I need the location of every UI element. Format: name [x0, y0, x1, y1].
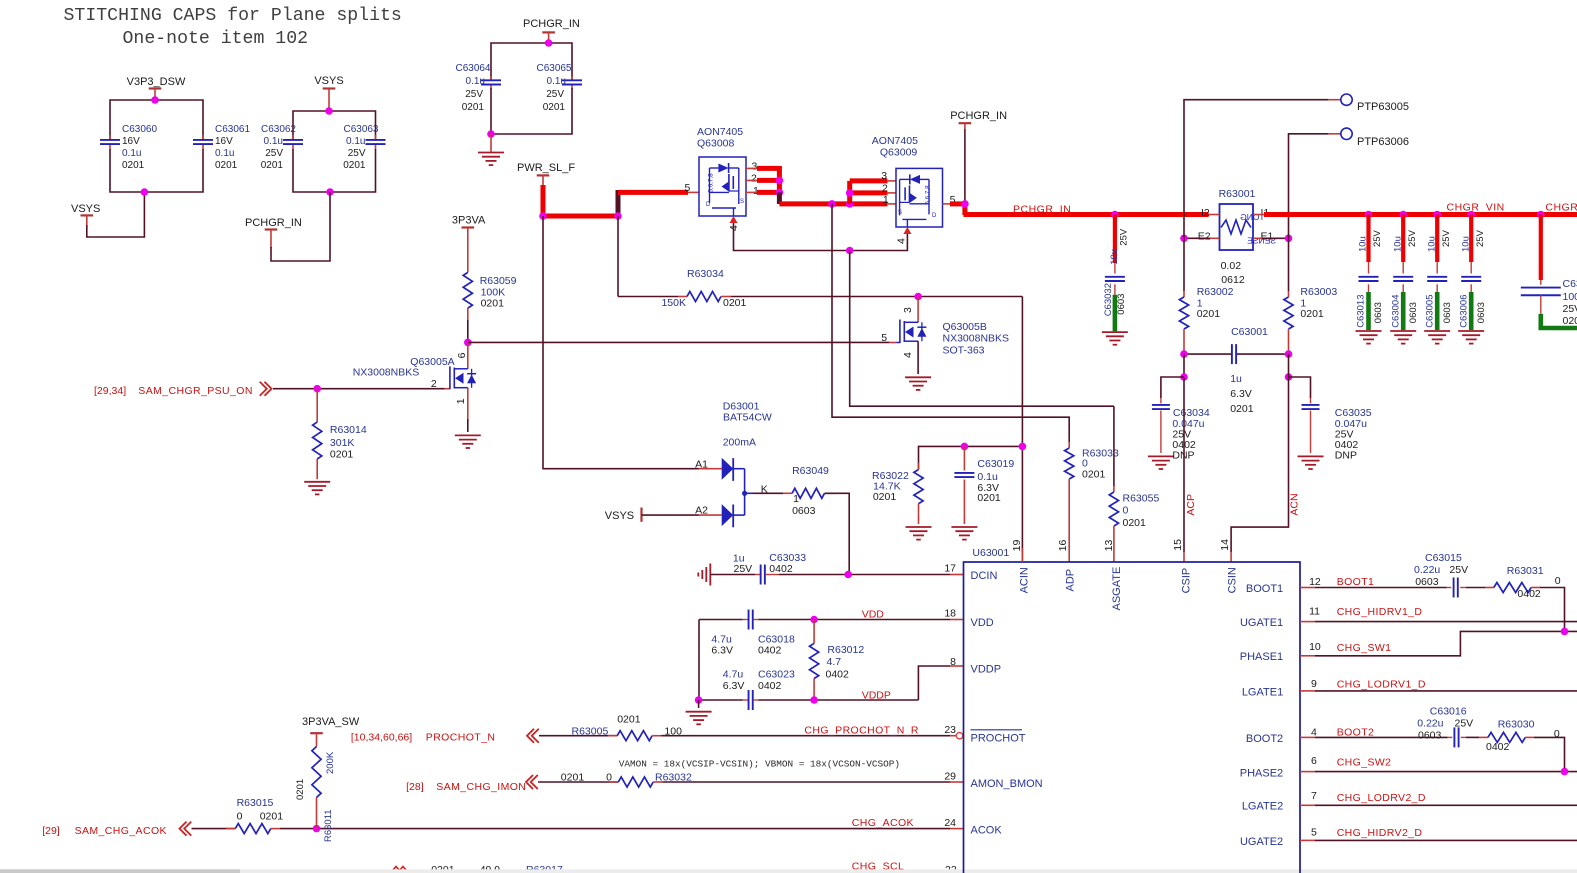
svg-text:R63005: R63005	[572, 726, 609, 738]
pin 22 SCL partial	[0, 0, 1, 1]
resistor R63055	[1109, 406, 1159, 562]
svg-text:C63060: C63060	[122, 124, 157, 135]
net SAM_CHG_IMON	[406, 775, 618, 793]
wire bus PCHGR_IN thick	[964, 204, 1209, 219]
svg-text:6.3V: 6.3V	[723, 680, 745, 692]
resistor R63059 100K	[463, 272, 516, 342]
wire PCHGR_IN cap box	[487, 39, 572, 138]
pin 9 LGATE1 net CHG_LODRV1_D	[1242, 678, 1577, 698]
svg-text:25V: 25V	[1563, 303, 1577, 315]
svg-text:18: 18	[944, 608, 956, 620]
svg-text:UGATE1: UGATE1	[1240, 617, 1283, 629]
capacitor C63004	[1390, 215, 1419, 344]
pin 18 VDD	[944, 608, 993, 629]
svg-text:SENSE: SENSE	[1247, 236, 1276, 246]
svg-text:0603: 0603	[1116, 294, 1127, 315]
wire gate loop to R63034 line	[850, 251, 1114, 407]
svg-text:R63059: R63059	[480, 275, 517, 287]
svg-text:R63001: R63001	[1219, 188, 1256, 200]
svg-text:13: 13	[1103, 540, 1115, 552]
svg-text:5: 5	[685, 182, 691, 194]
capacitor C63032	[1102, 215, 1130, 345]
ground below C63019	[951, 527, 977, 540]
svg-text:0: 0	[1123, 505, 1129, 517]
svg-text:7: 7	[1311, 790, 1317, 802]
pin 19 ACIN	[1011, 540, 1031, 594]
power net VSYS top	[314, 75, 343, 111]
svg-text:25V: 25V	[1475, 229, 1486, 247]
svg-text:C63061: C63061	[215, 124, 250, 135]
svg-text:0201: 0201	[561, 772, 585, 784]
resistor R63033	[1065, 442, 1119, 562]
svg-text:3: 3	[902, 307, 914, 313]
diode D63001 BAT54CW	[695, 400, 772, 527]
svg-text:CHG_LODRV2_D: CHG_LODRV2_D	[1337, 792, 1426, 804]
svg-text:CHG_PROCHOT_N_R: CHG_PROCHOT_N_R	[804, 725, 919, 737]
net stub PWR_SL_F	[517, 162, 575, 186]
title note text	[64, 6, 402, 49]
transistor Q63005B NX3008NBKS	[881, 297, 1009, 375]
svg-text:E2: E2	[1198, 231, 1211, 243]
svg-text:C63001: C63001	[1231, 326, 1268, 338]
capacitor C63019 0.1u	[954, 446, 1014, 524]
svg-text:4.7: 4.7	[827, 656, 842, 668]
svg-text:11: 11	[1309, 606, 1320, 618]
svg-text:25V: 25V	[465, 89, 483, 100]
svg-text:C63023: C63023	[758, 669, 795, 681]
svg-text:0201: 0201	[343, 160, 366, 171]
wire CSIP branch	[1180, 354, 1292, 381]
svg-text:LGATE2: LGATE2	[1242, 801, 1283, 813]
resistor R63022 14.7K	[872, 463, 923, 524]
svg-text:BOOT1: BOOT1	[1246, 583, 1283, 595]
svg-text:0201: 0201	[617, 714, 641, 726]
svg-text:0.02: 0.02	[1221, 260, 1242, 272]
svg-text:10u: 10u	[1460, 236, 1471, 252]
pin 16 ADP	[1057, 540, 1077, 592]
pin 17 DCIN	[944, 562, 997, 582]
svg-text:CHGR_VIN: CHGR_VIN	[1447, 202, 1505, 214]
capacitor C63033	[733, 552, 806, 585]
svg-text:VSYS: VSYS	[605, 510, 634, 522]
svg-text:C63033: C63033	[769, 552, 806, 564]
svg-text:CHG_HIDRV1_D: CHG_HIDRV1_D	[1337, 606, 1423, 618]
svg-text:0.1u: 0.1u	[215, 148, 234, 159]
ground below C63064	[478, 134, 504, 165]
svg-text:0612: 0612	[1221, 274, 1245, 286]
svg-text:ADP: ADP	[1065, 569, 1077, 592]
svg-text:6: 6	[1311, 755, 1317, 767]
test point PTP63006	[1289, 128, 1409, 238]
capacitor C63061	[193, 124, 250, 171]
svg-text:S: S	[898, 210, 902, 216]
wire node R63022 C63019	[919, 443, 1027, 470]
svg-text:10u: 10u	[1426, 236, 1437, 252]
pin 12 BOOT1 net	[1246, 576, 1447, 595]
svg-text:C63016: C63016	[1430, 706, 1467, 718]
capacitor C63015 0.22u	[1414, 552, 1468, 597]
test point PTP63005	[1184, 94, 1409, 238]
svg-text:0603: 0603	[1415, 576, 1439, 588]
svg-text:CHGR_VIN: CHGR_VIN	[1545, 202, 1577, 214]
svg-text:0201: 0201	[295, 779, 306, 800]
svg-text:VSYS: VSYS	[71, 203, 100, 215]
svg-text:8: 8	[950, 656, 956, 668]
svg-text:DCIN: DCIN	[971, 570, 998, 582]
svg-text:0201: 0201	[543, 102, 566, 113]
svg-text:NX3008NBKS: NX3008NBKS	[943, 333, 1010, 345]
svg-text:14: 14	[1219, 539, 1231, 551]
svg-text:PCHGR_IN: PCHGR_IN	[950, 110, 1007, 122]
net SAM_CHGR_PSU_ON	[94, 382, 445, 398]
svg-text:Q63005B: Q63005B	[943, 321, 987, 333]
svg-text:VSYS: VSYS	[314, 75, 343, 87]
svg-text:SAM_CHG_IMON: SAM_CHG_IMON	[436, 781, 526, 793]
svg-text:ACP: ACP	[1185, 494, 1197, 516]
svg-text:0: 0	[237, 811, 243, 823]
pin 5 UGATE2 net CHG_HIDRV2_D	[1240, 827, 1577, 848]
svg-text:301K: 301K	[330, 437, 355, 449]
svg-text:0201: 0201	[1197, 308, 1221, 320]
wire VSYS box loop	[293, 107, 376, 196]
svg-text:CHG_SW2: CHG_SW2	[1337, 757, 1392, 769]
svg-text:PHASE1: PHASE1	[1240, 651, 1283, 663]
svg-text:3: 3	[881, 170, 887, 182]
svg-text:AON7405: AON7405	[872, 135, 918, 147]
svg-text:VDD: VDD	[862, 609, 885, 621]
svg-text:S: S	[740, 199, 744, 205]
svg-text:Q63009: Q63009	[880, 147, 918, 159]
svg-text:SAM_CHG_ACOK: SAM_CHG_ACOK	[75, 825, 167, 837]
svg-text:CSIP: CSIP	[1181, 568, 1193, 594]
svg-text:15: 15	[1172, 539, 1184, 551]
ground left C63033	[698, 564, 755, 586]
resistor R63014 301K	[313, 389, 367, 480]
capacitor C63034 DNP	[1148, 377, 1210, 469]
svg-text:6: 6	[456, 352, 468, 358]
svg-text:C63064: C63064	[455, 63, 490, 74]
capacitor C63018	[711, 610, 795, 657]
svg-text:[10,34,60,66]: [10,34,60,66]	[351, 732, 412, 744]
svg-text:R63003: R63003	[1300, 286, 1337, 298]
wire V3P3_DSW box loop	[110, 96, 203, 192]
svg-text:C63018: C63018	[758, 633, 795, 645]
pin 4 BOOT2 net	[1246, 726, 1448, 745]
pin 11 UGATE1 net CHG_HIDRV1_D	[1240, 606, 1577, 629]
svg-text:10: 10	[1309, 641, 1321, 653]
svg-text:R63015: R63015	[237, 797, 274, 809]
transistor Q63008 AON7405	[685, 126, 760, 231]
svg-text:0402: 0402	[758, 680, 782, 692]
svg-text:C63015: C63015	[1425, 552, 1462, 564]
svg-text:BOOT2: BOOT2	[1246, 733, 1283, 745]
wire staple Q63008 pins 3-2-1	[746, 166, 783, 196]
wire ACIN net vertical	[1021, 297, 1023, 563]
svg-text:0603: 0603	[1418, 729, 1442, 741]
svg-text:R63055: R63055	[1123, 493, 1160, 505]
svg-text:24: 24	[944, 817, 956, 829]
svg-text:5,6,7,8: 5,6,7,8	[708, 173, 715, 193]
resistor R63012 4.7	[810, 620, 865, 701]
net stub PCHGR_IN lower	[245, 192, 330, 261]
svg-text:CHG_ACOK: CHG_ACOK	[852, 817, 914, 829]
net stub VSYS at A2	[605, 508, 722, 523]
pin 14 CSIN	[1219, 539, 1239, 594]
svg-text:BOOT1: BOOT1	[1337, 576, 1375, 588]
svg-text:0.1u: 0.1u	[122, 148, 141, 159]
svg-text:PWR_SL_F: PWR_SL_F	[517, 162, 575, 174]
svg-text:C63004: C63004	[1390, 295, 1401, 328]
formula note VAMON VBMON	[619, 759, 900, 770]
svg-text:R63011: R63011	[323, 809, 334, 842]
resistor R63001 sense 0.02 0612	[1198, 188, 1276, 286]
svg-text:PCHGR_IN: PCHGR_IN	[1013, 204, 1071, 216]
svg-text:0201: 0201	[723, 297, 747, 309]
power net V3P3_DSW	[127, 76, 186, 100]
svg-text:C63013: C63013	[1356, 295, 1367, 328]
svg-text:0.1u: 0.1u	[264, 136, 283, 147]
wire A1 from PWR_SL_F	[543, 216, 722, 469]
svg-text:0201: 0201	[261, 160, 284, 171]
partial row R63017 CHG_SCL	[392, 861, 957, 873]
wire ASGATE branch x832	[832, 204, 1069, 442]
svg-text:PCHGR_IN: PCHGR_IN	[523, 18, 580, 30]
ground below Q63005B	[905, 377, 931, 390]
svg-text:ASGATE: ASGATE	[1111, 567, 1123, 611]
capacitor C63006	[1458, 215, 1487, 344]
svg-text:0201: 0201	[1082, 469, 1106, 481]
svg-text:25V: 25V	[1372, 229, 1383, 247]
pin bubble PROCHOT	[804, 725, 962, 739]
svg-text:CHG_HIDRV2_D: CHG_HIDRV2_D	[1337, 827, 1423, 839]
svg-text:9: 9	[1311, 678, 1317, 690]
svg-text:0.1u: 0.1u	[346, 136, 365, 147]
svg-text:0603: 0603	[1442, 302, 1453, 323]
power net PCHGR_IN top	[523, 18, 580, 43]
svg-text:SAM_CHGR_PSU_ON: SAM_CHGR_PSU_ON	[138, 385, 253, 397]
ground below Q63005A	[455, 419, 481, 448]
svg-text:0201: 0201	[1300, 308, 1324, 320]
svg-text:C63032: C63032	[1103, 283, 1114, 316]
wire bus CHGR_VIN thick	[1253, 202, 1577, 219]
svg-text:0201: 0201	[122, 160, 145, 171]
svg-text:0402: 0402	[758, 645, 782, 657]
svg-text:16V: 16V	[122, 136, 140, 147]
svg-text:0402: 0402	[769, 563, 793, 575]
ic U63001 body	[964, 547, 1301, 873]
svg-text:0.22u: 0.22u	[1414, 564, 1440, 576]
pin 13 ASGATE	[1103, 540, 1123, 611]
wire E sense line	[1180, 235, 1292, 243]
capacitor C63065	[536, 63, 582, 113]
svg-text:C63063: C63063	[343, 124, 378, 135]
svg-text:25V: 25V	[1441, 229, 1452, 247]
svg-text:ACIN: ACIN	[1019, 567, 1031, 593]
wire node drain Q63005A to Q63005B pin5	[464, 339, 889, 347]
ground below R63022	[906, 527, 932, 540]
wire net ACN to CSIN	[1231, 377, 1300, 562]
svg-text:25V: 25V	[1449, 564, 1468, 576]
capacitor C63063	[343, 124, 385, 171]
svg-text:D: D	[706, 202, 711, 208]
capacitor C63062	[261, 124, 303, 171]
svg-text:V3P3_DSW: V3P3_DSW	[127, 76, 186, 88]
svg-text:10u: 10u	[1109, 249, 1120, 265]
resistor R63032 0	[561, 772, 964, 788]
svg-text:200K: 200K	[325, 751, 336, 774]
svg-text:R63014: R63014	[330, 424, 367, 436]
svg-text:Q63008: Q63008	[697, 138, 735, 150]
capacitor C63023	[723, 669, 795, 711]
resistor R63049	[753, 465, 849, 574]
svg-text:0603: 0603	[792, 505, 816, 517]
svg-text:A1: A1	[695, 459, 708, 471]
svg-text:0402: 0402	[826, 669, 850, 681]
svg-text:One-note item 102: One-note item 102	[123, 29, 309, 49]
svg-text:0201: 0201	[1563, 315, 1577, 327]
svg-text:1000: 1000	[1563, 291, 1577, 303]
pin 23 PROCHOT	[944, 724, 1025, 744]
svg-text:1: 1	[455, 398, 467, 404]
wire staple Q63009 pins 3-2-1	[846, 181, 896, 204]
svg-text:1: 1	[883, 194, 889, 206]
svg-text:CSIN: CSIN	[1227, 567, 1239, 593]
resistor R63005 100	[572, 714, 957, 741]
svg-text:C63065: C63065	[536, 63, 571, 74]
svg-text:17: 17	[944, 562, 956, 574]
svg-text:4: 4	[902, 352, 914, 358]
resistor R63030 0	[1466, 719, 1565, 772]
svg-text:AMON_BMON: AMON_BMON	[971, 778, 1043, 790]
capacitor C63060	[100, 124, 157, 171]
svg-text:3P3VA_SW: 3P3VA_SW	[302, 716, 360, 728]
power net 3P3VA	[452, 215, 486, 273]
svg-text:0603: 0603	[1373, 302, 1384, 323]
svg-text:25V: 25V	[546, 89, 564, 100]
svg-text:R63030: R63030	[1498, 719, 1535, 731]
svg-text:CHG_SW1: CHG_SW1	[1337, 642, 1392, 654]
svg-text:BAT54CW: BAT54CW	[723, 412, 772, 424]
svg-text:2: 2	[751, 173, 757, 185]
svg-text:4.7u: 4.7u	[723, 669, 744, 681]
svg-text:0201: 0201	[330, 449, 354, 461]
svg-text:16: 16	[1057, 540, 1069, 552]
svg-text:[29,34]: [29,34]	[94, 385, 126, 397]
capacitor C63035 DNP	[1289, 377, 1372, 469]
pin 8 VDDP	[950, 656, 1001, 676]
svg-text:ACN: ACN	[1289, 493, 1301, 515]
svg-text:SOT-363: SOT-363	[943, 345, 985, 357]
resistor R63031 0	[1466, 565, 1565, 631]
svg-text:0.1u: 0.1u	[547, 76, 566, 87]
svg-text:R63034: R63034	[687, 268, 724, 280]
svg-text:3P3VA: 3P3VA	[452, 215, 486, 227]
svg-text:0201: 0201	[873, 491, 897, 503]
svg-text:1: 1	[793, 493, 799, 505]
svg-text:PROCHOT_N: PROCHOT_N	[426, 732, 496, 744]
net stub VSYS lower-left	[71, 188, 148, 237]
svg-text:AON7405: AON7405	[697, 126, 743, 138]
svg-text:VDDP: VDDP	[971, 664, 1002, 676]
svg-text:25V: 25V	[1407, 229, 1418, 247]
svg-text:5: 5	[1311, 827, 1317, 839]
svg-text:1u: 1u	[1230, 373, 1242, 385]
resistor R63003	[1284, 238, 1337, 354]
pin 29 AMON_BMON	[944, 771, 1042, 791]
power net 3P3VA_SW	[302, 716, 360, 747]
transistor Q63009 AON7405	[872, 135, 956, 244]
svg-text:29: 29	[944, 771, 956, 783]
svg-text:PTP63005: PTP63005	[1357, 101, 1409, 113]
svg-text:0201: 0201	[260, 811, 284, 823]
svg-text:25V: 25V	[1119, 228, 1130, 246]
bottom gray strip	[0, 869, 1577, 873]
wire VDDP net	[695, 666, 964, 704]
svg-text:4: 4	[1311, 726, 1317, 738]
svg-text:6.3V: 6.3V	[1230, 388, 1252, 400]
svg-text:PHASE2: PHASE2	[1240, 767, 1283, 779]
svg-text:4: 4	[896, 238, 908, 244]
svg-text:0201: 0201	[1123, 517, 1147, 529]
svg-text:PTP63006: PTP63006	[1357, 136, 1409, 148]
svg-text:[29]: [29]	[42, 825, 60, 837]
svg-text:R63031: R63031	[1507, 565, 1544, 577]
svg-text:VAMON = 18x(VCSIP-VCSIN); VBMO: VAMON = 18x(VCSIP-VCSIN); VBMON = 18x(VC…	[619, 759, 900, 770]
resistor R63015 0	[226, 797, 964, 834]
resistor R63034 150K	[618, 216, 1022, 309]
svg-text:C6300: C6300	[1563, 278, 1577, 290]
net SAM_CHG_ACOK	[42, 822, 235, 837]
svg-text:0603: 0603	[1408, 302, 1419, 323]
svg-text:10u: 10u	[1392, 236, 1403, 252]
pin 6 PHASE2 net CHG_SW2	[1240, 755, 1577, 779]
svg-text:D63001: D63001	[723, 400, 760, 412]
svg-text:12: 12	[1309, 576, 1321, 588]
svg-text:ACOK: ACOK	[971, 825, 1003, 837]
svg-text:4.7u: 4.7u	[711, 633, 732, 645]
svg-text:25V: 25V	[348, 148, 366, 159]
svg-text:C63062: C63062	[261, 124, 296, 135]
ground below VDDP corner	[686, 700, 712, 724]
net PROCHOT_N	[351, 729, 617, 744]
svg-text:16V: 16V	[215, 136, 233, 147]
capacitor C63016 0.22u	[1417, 706, 1473, 748]
svg-text:25V: 25V	[1455, 718, 1474, 730]
svg-text:UGATE2: UGATE2	[1240, 836, 1283, 848]
svg-text:0402: 0402	[1486, 741, 1510, 753]
wire net ACP to CSIP	[1184, 377, 1197, 562]
svg-text:R63012: R63012	[827, 644, 864, 656]
svg-text:I2: I2	[1201, 207, 1210, 219]
svg-text:BOOT2: BOOT2	[1337, 726, 1375, 738]
ground below R63014	[304, 482, 330, 495]
svg-text:[28]: [28]	[406, 781, 424, 793]
svg-text:PCHGR_IN: PCHGR_IN	[245, 217, 302, 229]
svg-text:PROCHOT: PROCHOT	[971, 732, 1026, 744]
resistor R63002	[1179, 238, 1233, 354]
svg-text:C63006: C63006	[1458, 295, 1469, 328]
svg-text:STITCHING CAPS for Plane split: STITCHING CAPS for Plane splits	[64, 6, 402, 26]
svg-text:C63005: C63005	[1424, 295, 1435, 328]
svg-text:VDDP: VDDP	[862, 689, 891, 701]
svg-text:0201: 0201	[462, 102, 485, 113]
pin 7 LGATE2 net CHG_LODRV2_D	[1242, 790, 1577, 813]
svg-text:NX3008NBKS: NX3008NBKS	[353, 367, 420, 379]
svg-text:TONG: TONG	[1240, 212, 1264, 222]
svg-text:0603: 0603	[1476, 302, 1487, 323]
wire DCIN to pin 17	[779, 571, 964, 579]
svg-text:0.1u: 0.1u	[466, 76, 485, 87]
